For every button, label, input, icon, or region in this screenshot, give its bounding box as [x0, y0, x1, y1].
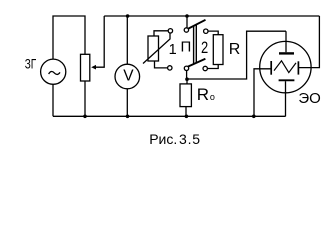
- oscilloscope top electrode bar: [279, 52, 294, 54]
- switch P top pole contact: [184, 28, 188, 32]
- switch P link bar 1: [193, 26, 195, 64]
- potentiometer R1 body: [81, 54, 90, 81]
- svg-text:ЭО: ЭО: [298, 90, 320, 107]
- wire ZG bottom to bottom rail: [52, 84, 54, 116]
- node: Ro-bottom junction dot: [185, 115, 189, 119]
- svg-text:1: 1: [169, 42, 177, 58]
- oscilloscope bottom electrode stem to rail: [285, 81, 287, 116]
- svg-text:ЗГ: ЗГ: [25, 55, 37, 71]
- resistor R (branch 2) top lead: [208, 31, 218, 35]
- potentiometer bottom wire: [84, 81, 86, 116]
- wire: bottom rail: [53, 115, 286, 117]
- terminal circle: thermistor top: [168, 29, 172, 33]
- generator sine symbol: [49, 71, 60, 74]
- node: potentiometer-bottom junction dot: [83, 115, 87, 119]
- wire: main top rail: [104, 15, 319, 17]
- thermistor 1 top lead: [154, 31, 168, 36]
- resistor R body: [213, 35, 223, 65]
- resistor Ro body: [180, 84, 191, 107]
- oscilloscope left plate: [270, 61, 272, 75]
- oscilloscope beam zigzag: [274, 61, 296, 73]
- svg-text:R: R: [229, 41, 241, 58]
- oscilloscope bottom electrode bar: [279, 79, 295, 81]
- svg-text:2: 2: [201, 39, 208, 57]
- switch P bottom right throw contact: [203, 66, 207, 70]
- node: switch-top junction dot on rail: [185, 14, 189, 18]
- switch P bottom pole contact: [184, 66, 188, 70]
- resistor R bottom lead: [207, 65, 218, 69]
- wire ZG top to potentiometer top: [53, 16, 85, 59]
- voltmeter V circle: [115, 64, 140, 89]
- node: wire-B junction dot on bottom rail: [252, 115, 256, 119]
- wire: node to Ro top: [186, 79, 188, 84]
- oscilloscope top electrode stem: [285, 31, 287, 52]
- svg-text:Рис.: Рис.: [149, 131, 177, 147]
- terminal circle: thermistor bottom: [168, 66, 172, 70]
- potentiometer wiper arrowhead: [91, 65, 96, 70]
- switch P top right throw contact: [204, 29, 208, 33]
- thermistor 1 body: [148, 36, 159, 61]
- switch P bottom blade: [188, 59, 206, 67]
- potentiometer wiper arrow wire: [95, 16, 104, 67]
- thermistor 1 bottom lead: [155, 61, 168, 68]
- svg-text:о: о: [210, 92, 215, 102]
- switch P link bar 2: [195, 24, 197, 62]
- node: voltmeter-bottom junction dot: [126, 115, 130, 119]
- svg-text:V: V: [123, 68, 134, 85]
- wire: Ro bottom to rail: [185, 107, 187, 117]
- svg-text:3.5: 3.5: [179, 131, 201, 147]
- svg-text:П: П: [181, 39, 192, 56]
- wire: right plate to top rail: [298, 16, 319, 68]
- oscilloscope EO circle: [260, 41, 311, 92]
- voltmeter top wire: [126, 16, 128, 64]
- oscilloscope right plate: [297, 61, 299, 74]
- switch P top blade: [188, 20, 205, 29]
- node: voltmeter-top junction dot: [126, 14, 130, 18]
- wire B: bottom rail to oscilloscope left plate: [254, 69, 271, 117]
- thermistor 1 diagonal: [143, 33, 170, 63]
- generator ZG circle: [41, 59, 66, 84]
- wire: bottom pole down to node: [186, 71, 188, 80]
- wire A: Ro node to oscilloscope top: [187, 31, 286, 79]
- node: Ro-top junction dot: [185, 77, 189, 81]
- voltmeter bottom wire: [126, 89, 128, 117]
- wire: rail to top pole: [186, 16, 188, 28]
- svg-text:R: R: [197, 85, 209, 104]
